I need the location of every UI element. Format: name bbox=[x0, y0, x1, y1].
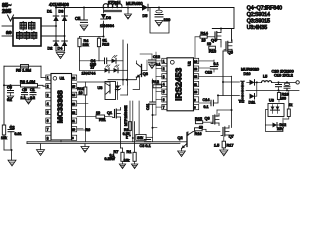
svg-text:10: 10 bbox=[79, 91, 83, 95]
svg-text:C12: C12 bbox=[153, 55, 160, 59]
svg-text:22V: 22V bbox=[277, 127, 284, 131]
svg-text:U3: U3 bbox=[98, 86, 103, 90]
svg-text:6: 6 bbox=[163, 98, 165, 102]
svg-text:33k: 33k bbox=[137, 136, 143, 140]
svg-text:13: 13 bbox=[72, 102, 75, 106]
svg-text:Q4~Q7:IRF840: Q4~Q7:IRF840 bbox=[247, 5, 282, 11]
svg-text:Q4: Q4 bbox=[211, 38, 217, 43]
svg-text:0.25W: 0.25W bbox=[105, 157, 116, 161]
svg-text:0.1: 0.1 bbox=[204, 105, 209, 109]
svg-text:MUR3020: MUR3020 bbox=[241, 67, 260, 72]
svg-text:Q2:S9014: Q2:S9014 bbox=[247, 12, 270, 18]
svg-text:10k: 10k bbox=[124, 158, 130, 162]
svg-text:MC33368: MC33368 bbox=[55, 90, 64, 123]
svg-text:11: 11 bbox=[72, 119, 75, 123]
svg-text:R13: R13 bbox=[102, 42, 109, 46]
svg-text:R17: R17 bbox=[227, 143, 234, 147]
svg-text:1N4934: 1N4934 bbox=[100, 23, 115, 28]
svg-text:0.01: 0.01 bbox=[15, 132, 22, 136]
svg-text:U3: U3 bbox=[269, 99, 274, 103]
svg-text:R6: R6 bbox=[86, 128, 91, 132]
svg-text:D1: D1 bbox=[47, 10, 52, 14]
svg-text:U3:4N35: U3:4N35 bbox=[247, 25, 268, 31]
svg-text:13: 13 bbox=[194, 67, 197, 71]
svg-text:Q5: Q5 bbox=[228, 50, 234, 55]
svg-text:D4: D4 bbox=[58, 46, 63, 50]
svg-text:8: 8 bbox=[47, 136, 49, 140]
svg-text:D3: D3 bbox=[59, 10, 64, 14]
svg-text:R14: R14 bbox=[201, 31, 209, 36]
svg-text:Q7: Q7 bbox=[229, 134, 234, 138]
svg-text:27: 27 bbox=[91, 66, 95, 70]
svg-text:16: 16 bbox=[72, 76, 75, 80]
svg-text:D2: D2 bbox=[48, 46, 53, 50]
svg-text:4X1N5406: 4X1N5406 bbox=[49, 2, 69, 7]
svg-text:15: 15 bbox=[72, 85, 75, 89]
svg-text:D10: D10 bbox=[244, 72, 251, 76]
svg-text:D5: D5 bbox=[143, 14, 148, 18]
svg-text:220: 220 bbox=[164, 17, 171, 22]
svg-text:C6: C6 bbox=[7, 86, 12, 90]
svg-text:C14: C14 bbox=[203, 98, 210, 102]
svg-text:265: 265 bbox=[2, 9, 11, 15]
svg-text:R13: R13 bbox=[209, 48, 217, 53]
svg-text:R8 1.0M: R8 1.0M bbox=[20, 79, 35, 84]
svg-text:IRS2453: IRS2453 bbox=[173, 67, 183, 100]
svg-text:8: 8 bbox=[194, 106, 196, 110]
svg-text:U1: U1 bbox=[60, 76, 65, 80]
svg-text:1N4744: 1N4744 bbox=[82, 71, 97, 76]
svg-text:5: 5 bbox=[47, 111, 49, 115]
svg-text:L5: L5 bbox=[263, 75, 267, 79]
svg-text:k: k bbox=[126, 135, 128, 139]
svg-text:R5 1.3M: R5 1.3M bbox=[16, 68, 31, 73]
svg-text:Tr1: Tr1 bbox=[239, 100, 245, 104]
svg-text:11: 11 bbox=[194, 82, 197, 86]
svg-text:10: 10 bbox=[202, 38, 206, 42]
svg-text:10: 10 bbox=[72, 128, 75, 132]
svg-text:10: 10 bbox=[96, 111, 100, 115]
svg-text:4: 4 bbox=[47, 102, 49, 106]
svg-text:14: 14 bbox=[72, 93, 75, 97]
svg-text:D11: D11 bbox=[249, 100, 256, 104]
svg-text:C2: C2 bbox=[10, 125, 16, 130]
svg-text:10: 10 bbox=[194, 90, 197, 94]
svg-text:C1: C1 bbox=[30, 88, 35, 92]
svg-text:R1: R1 bbox=[127, 150, 132, 154]
svg-text:3: 3 bbox=[163, 75, 165, 79]
svg-text:C3 0.1: C3 0.1 bbox=[140, 144, 151, 148]
svg-text:12: 12 bbox=[72, 110, 75, 114]
svg-text:C19 2X2.2: C19 2X2.2 bbox=[274, 72, 294, 77]
svg-text:R16: R16 bbox=[195, 132, 202, 136]
svg-text:C13: C13 bbox=[205, 71, 212, 75]
svg-text:10: 10 bbox=[207, 42, 211, 46]
svg-text:MUR460: MUR460 bbox=[126, 1, 143, 6]
svg-text:7: 7 bbox=[47, 128, 49, 132]
svg-text:Q3: Q3 bbox=[143, 72, 148, 76]
svg-text:5: 5 bbox=[163, 90, 165, 94]
svg-text:14: 14 bbox=[194, 59, 197, 63]
svg-text:1: 1 bbox=[163, 59, 165, 63]
svg-text:2: 2 bbox=[47, 85, 49, 89]
svg-text:R11: R11 bbox=[99, 118, 106, 122]
svg-text:870μH: 870μH bbox=[108, 0, 120, 5]
svg-text:3: 3 bbox=[47, 93, 49, 97]
svg-text:7: 7 bbox=[163, 106, 165, 110]
svg-text:1.5: 1.5 bbox=[214, 143, 219, 147]
svg-text:MTP20N40E: MTP20N40E bbox=[124, 105, 128, 126]
svg-text:Q3:S9015: Q3:S9015 bbox=[247, 18, 270, 24]
svg-text:U2: U2 bbox=[188, 61, 192, 66]
svg-text:22k: 22k bbox=[83, 43, 89, 47]
svg-text:4: 4 bbox=[163, 83, 165, 87]
svg-text:6: 6 bbox=[47, 119, 49, 123]
svg-text:9: 9 bbox=[194, 98, 196, 102]
svg-text:2: 2 bbox=[163, 67, 165, 71]
svg-text:ac: ac bbox=[6, 30, 12, 36]
svg-text:R12: R12 bbox=[152, 80, 159, 84]
svg-text:D8: D8 bbox=[106, 16, 111, 20]
svg-text:Q2: Q2 bbox=[178, 136, 183, 140]
svg-text:Q1: Q1 bbox=[107, 111, 112, 115]
svg-text:9: 9 bbox=[72, 136, 74, 140]
svg-text:12: 12 bbox=[194, 75, 197, 79]
svg-text:Q6: Q6 bbox=[205, 116, 210, 120]
svg-text:1: 1 bbox=[47, 76, 49, 80]
